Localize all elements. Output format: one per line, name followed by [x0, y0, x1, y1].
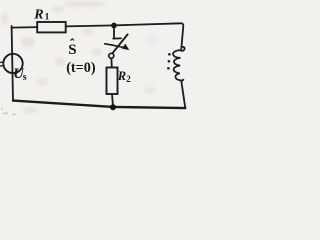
svg-text:R: R [117, 69, 126, 83]
faint print-through marks bottom-left [1, 109, 16, 115]
paper background [0, 0, 196, 117]
scan mark at left edge [0, 62, 3, 66]
svg-text:R: R [33, 7, 43, 22]
wire R2 to bottom junction [112, 94, 113, 107]
wire top-left segment [12, 26, 38, 29]
switch S: fixed contact tick [113, 37, 121, 39]
inductor core dots [168, 53, 171, 56]
resistor R1 [37, 22, 65, 32]
svg-text:s: s [23, 72, 27, 83]
wire left vertical [12, 26, 13, 101]
switch S: blade [112, 34, 127, 53]
junction dot bottom [110, 104, 116, 110]
wire bottom [13, 101, 185, 109]
paper mottle [1, 1, 157, 113]
svg-text:S: S [68, 42, 76, 58]
hat mark above S [71, 39, 75, 41]
inductor L coil [173, 47, 185, 81]
voltage source circle [3, 54, 22, 73]
wire right vertical below inductor [181, 80, 185, 108]
junction dot top [111, 23, 117, 29]
switch S: contact circle [109, 53, 114, 58]
resistor R2 [107, 68, 118, 95]
svg-text:(t=0): (t=0) [66, 60, 96, 76]
switch S: pivot stem [113, 27, 115, 39]
svg-text:1: 1 [45, 12, 50, 22]
wire top right of R1 to junction and right corner [66, 23, 184, 49]
wire switch contact to R2 [110, 58, 112, 67]
switch S: motion arrow [105, 44, 124, 48]
svg-text:2: 2 [126, 74, 131, 84]
